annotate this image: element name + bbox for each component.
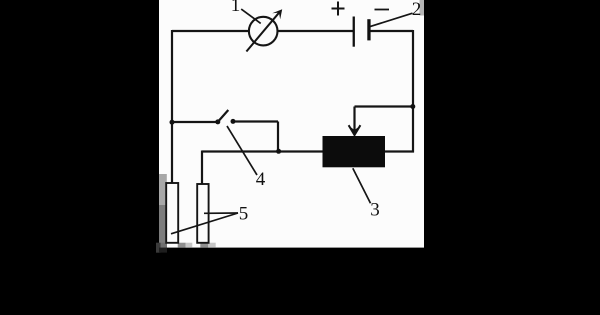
rheostat R1 body <box>323 136 386 167</box>
wire: top left horizontal from corner to battery long plate <box>172 30 353 32</box>
wire: rheostat right to right vertical <box>384 150 414 152</box>
leader 1 <box>241 9 261 23</box>
wire: middle row horizontal to rheostat left <box>202 150 323 152</box>
node junction middle row <box>276 149 281 154</box>
svg-text:1: 1 <box>231 0 241 16</box>
ammeter arrow <box>246 11 280 51</box>
leader 5 horizontal <box>204 212 238 214</box>
wire: rheostat wiper feed vertical with arrow <box>353 107 355 132</box>
node junction wiper feed / right vertical <box>410 104 415 109</box>
gray artifact patches under electrodes <box>178 243 186 248</box>
leader 2 <box>370 13 413 26</box>
electrode left <box>166 183 178 243</box>
wire: right electrode riser <box>201 151 203 186</box>
wire: right vertical <box>412 30 414 153</box>
leader 4 <box>227 126 257 175</box>
electrode right <box>197 184 208 243</box>
switch S1 lever <box>218 110 229 122</box>
gray artifact column bottom-left edge <box>159 174 167 248</box>
battery short plate (-) <box>367 19 370 40</box>
leader 3 <box>353 168 371 203</box>
svg-text:5: 5 <box>239 204 249 225</box>
wire: vertical drop from switch row to middle row <box>277 122 279 152</box>
minus sign <box>375 9 390 11</box>
wire: rheostat wiper feed horizontal <box>355 105 414 107</box>
node junction left (switch row) <box>170 120 175 125</box>
svg-text:4: 4 <box>256 169 266 190</box>
battery long plate (+) <box>353 17 355 47</box>
white schematic panel <box>159 0 424 248</box>
wire: top right horizontal battery short plate to corner <box>368 30 413 32</box>
svg-text:2: 2 <box>412 0 422 20</box>
svg-text:3: 3 <box>370 200 380 221</box>
arrowhead into rheostat <box>348 126 360 137</box>
leader 5 diagonal <box>171 213 238 234</box>
wire: left vertical <box>171 30 173 184</box>
ammeter U1 circle <box>249 17 278 46</box>
switch S1 right contact dot <box>231 119 236 124</box>
gray artifact patch top-right near label 2 <box>420 0 425 16</box>
switch S1 left contact dot <box>215 119 220 124</box>
wire: switch row right segment <box>233 120 278 122</box>
plus sign <box>332 8 345 10</box>
wire: switch row left segment <box>172 121 218 123</box>
